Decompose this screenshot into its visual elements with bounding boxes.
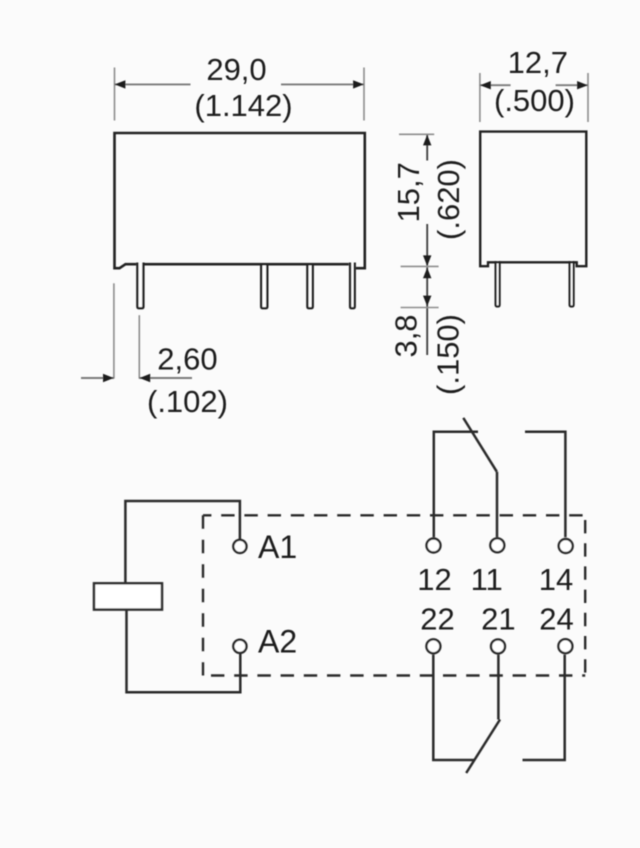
dimension 15,7 arrowheads: [423, 135, 431, 146]
svg-text:A1: A1: [258, 529, 297, 565]
svg-text:A2: A2: [258, 624, 297, 660]
svg-text:3,8: 3,8: [389, 314, 424, 357]
svg-text:(.150): (.150): [431, 314, 466, 395]
dimension 15,7 line: [426, 135, 428, 266]
wire contact 14: [525, 432, 565, 538]
dimension 2,60 extension lines: [114, 283, 139, 378]
pin 5 (side view left): [496, 261, 500, 307]
relay body front view outline: [115, 133, 365, 268]
dimension 3,8 tick bottom: [401, 307, 439, 309]
svg-text:21: 21: [481, 601, 515, 636]
dimension 15,7 tick bottom: [401, 265, 439, 267]
svg-text:12: 12: [417, 562, 451, 597]
wire contact 22: [433, 655, 474, 760]
terminal 22: [426, 639, 440, 653]
dimension 12,7 extension lines: [480, 73, 588, 122]
dimension 12,7 arrowheads: [480, 81, 491, 89]
dimension 29,0 arrowheads: [115, 80, 126, 88]
pin 1 (front view): [137, 263, 143, 309]
svg-text:14: 14: [539, 562, 573, 597]
svg-text:15,7: 15,7: [391, 162, 426, 222]
switch blade bottom (21 to 22): [466, 720, 500, 774]
svg-text:24: 24: [539, 601, 573, 636]
svg-text:(.620): (.620): [431, 159, 466, 240]
terminal 21: [491, 639, 505, 653]
wire contact 24: [523, 655, 565, 760]
terminal 24: [558, 639, 572, 653]
wire contact 21: [497, 655, 500, 720]
wire contact 11: [496, 472, 499, 538]
svg-text:(1.142): (1.142): [194, 88, 292, 123]
pin 4 (front view): [350, 263, 355, 309]
terminal A2: [233, 640, 246, 653]
terminal 12: [427, 539, 441, 553]
svg-text:(.500): (.500): [494, 83, 575, 118]
pin 3 (front view): [307, 264, 312, 309]
dimension 15,7 tick top: [399, 133, 434, 135]
terminal A1: [233, 540, 246, 553]
svg-text:12,7: 12,7: [508, 45, 568, 80]
svg-text:2,60: 2,60: [157, 341, 217, 376]
svg-text:29,0: 29,0: [206, 52, 266, 87]
dimension 3,8 line: [426, 267, 428, 355]
pin 6 (side view right): [570, 261, 574, 307]
svg-text:22: 22: [420, 601, 454, 636]
svg-text:11: 11: [471, 562, 503, 597]
svg-text:(.102): (.102): [147, 384, 228, 419]
dimension 3,8 arrowheads: [423, 268, 431, 279]
dimension 2,60 arrowheads: [103, 374, 114, 382]
dimension 29,0 line: [115, 83, 365, 85]
pin 2 (front view): [261, 264, 267, 309]
coil K1: [94, 583, 162, 609]
wire coil bottom: [127, 610, 241, 693]
dimension 29,0 extension lines: [115, 68, 365, 121]
terminal 11: [490, 538, 504, 552]
dimension 2,60 lines: [81, 377, 192, 379]
switch blade top (11 to 12): [463, 418, 497, 472]
wire contact 12: [434, 432, 478, 538]
terminal 14: [559, 539, 573, 553]
relay body side view outline: [480, 132, 586, 267]
wire coil top: [125, 501, 239, 583]
dashed relay outline box: [203, 515, 585, 675]
dimension 12,7 line: [480, 84, 588, 86]
